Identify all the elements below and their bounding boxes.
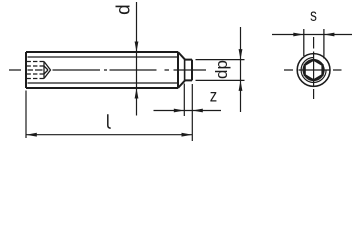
dimension s extension lines — [304, 29, 324, 59]
svg-text:s: s — [310, 6, 317, 25]
end view thread arc — [301, 58, 326, 83]
dimension dp extension lines — [196, 60, 245, 81]
arrow dp bottom — [239, 80, 243, 91]
arrow s left — [293, 33, 304, 37]
thread line top — [28, 56, 179, 58]
dimension dp line — [240, 27, 242, 112]
dimension l extension line left — [25, 91, 27, 139]
end view socket chamfer circle — [303, 60, 324, 81]
centerline side view — [9, 69, 206, 71]
arrow z left — [174, 109, 185, 113]
arrow s right — [324, 33, 335, 37]
thread line bottom — [28, 82, 179, 84]
screw body outline — [26, 52, 185, 88]
dimension l line — [26, 134, 192, 136]
svg-text:z: z — [210, 86, 217, 105]
hex socket hidden lines — [27, 62, 45, 79]
arrow d top — [135, 42, 139, 53]
dimension s line — [272, 34, 352, 36]
arrow l left — [26, 133, 37, 137]
hex socket cone — [44, 62, 51, 79]
dog point shoulder — [184, 60, 186, 81]
arrow dp top — [239, 49, 243, 60]
hex socket end bar — [43, 62, 45, 79]
dimension z line — [154, 110, 222, 112]
arrow l right — [182, 133, 193, 137]
dimension z extension lines — [184, 84, 192, 142]
wire — [9, 2, 352, 141]
end view vertical centerline — [313, 37, 315, 99]
arrow z right — [192, 109, 203, 113]
dimension d line — [136, 2, 138, 116]
arrow d bottom — [135, 88, 139, 99]
svg-text:d: d — [113, 4, 134, 15]
svg-text:dp: dp — [212, 60, 231, 79]
end view horizontal centerline — [284, 69, 342, 71]
hex socket hexagon — [305, 60, 323, 81]
label l — [108, 114, 111, 128]
dog point — [185, 60, 192, 81]
end view outer circle — [297, 54, 330, 87]
